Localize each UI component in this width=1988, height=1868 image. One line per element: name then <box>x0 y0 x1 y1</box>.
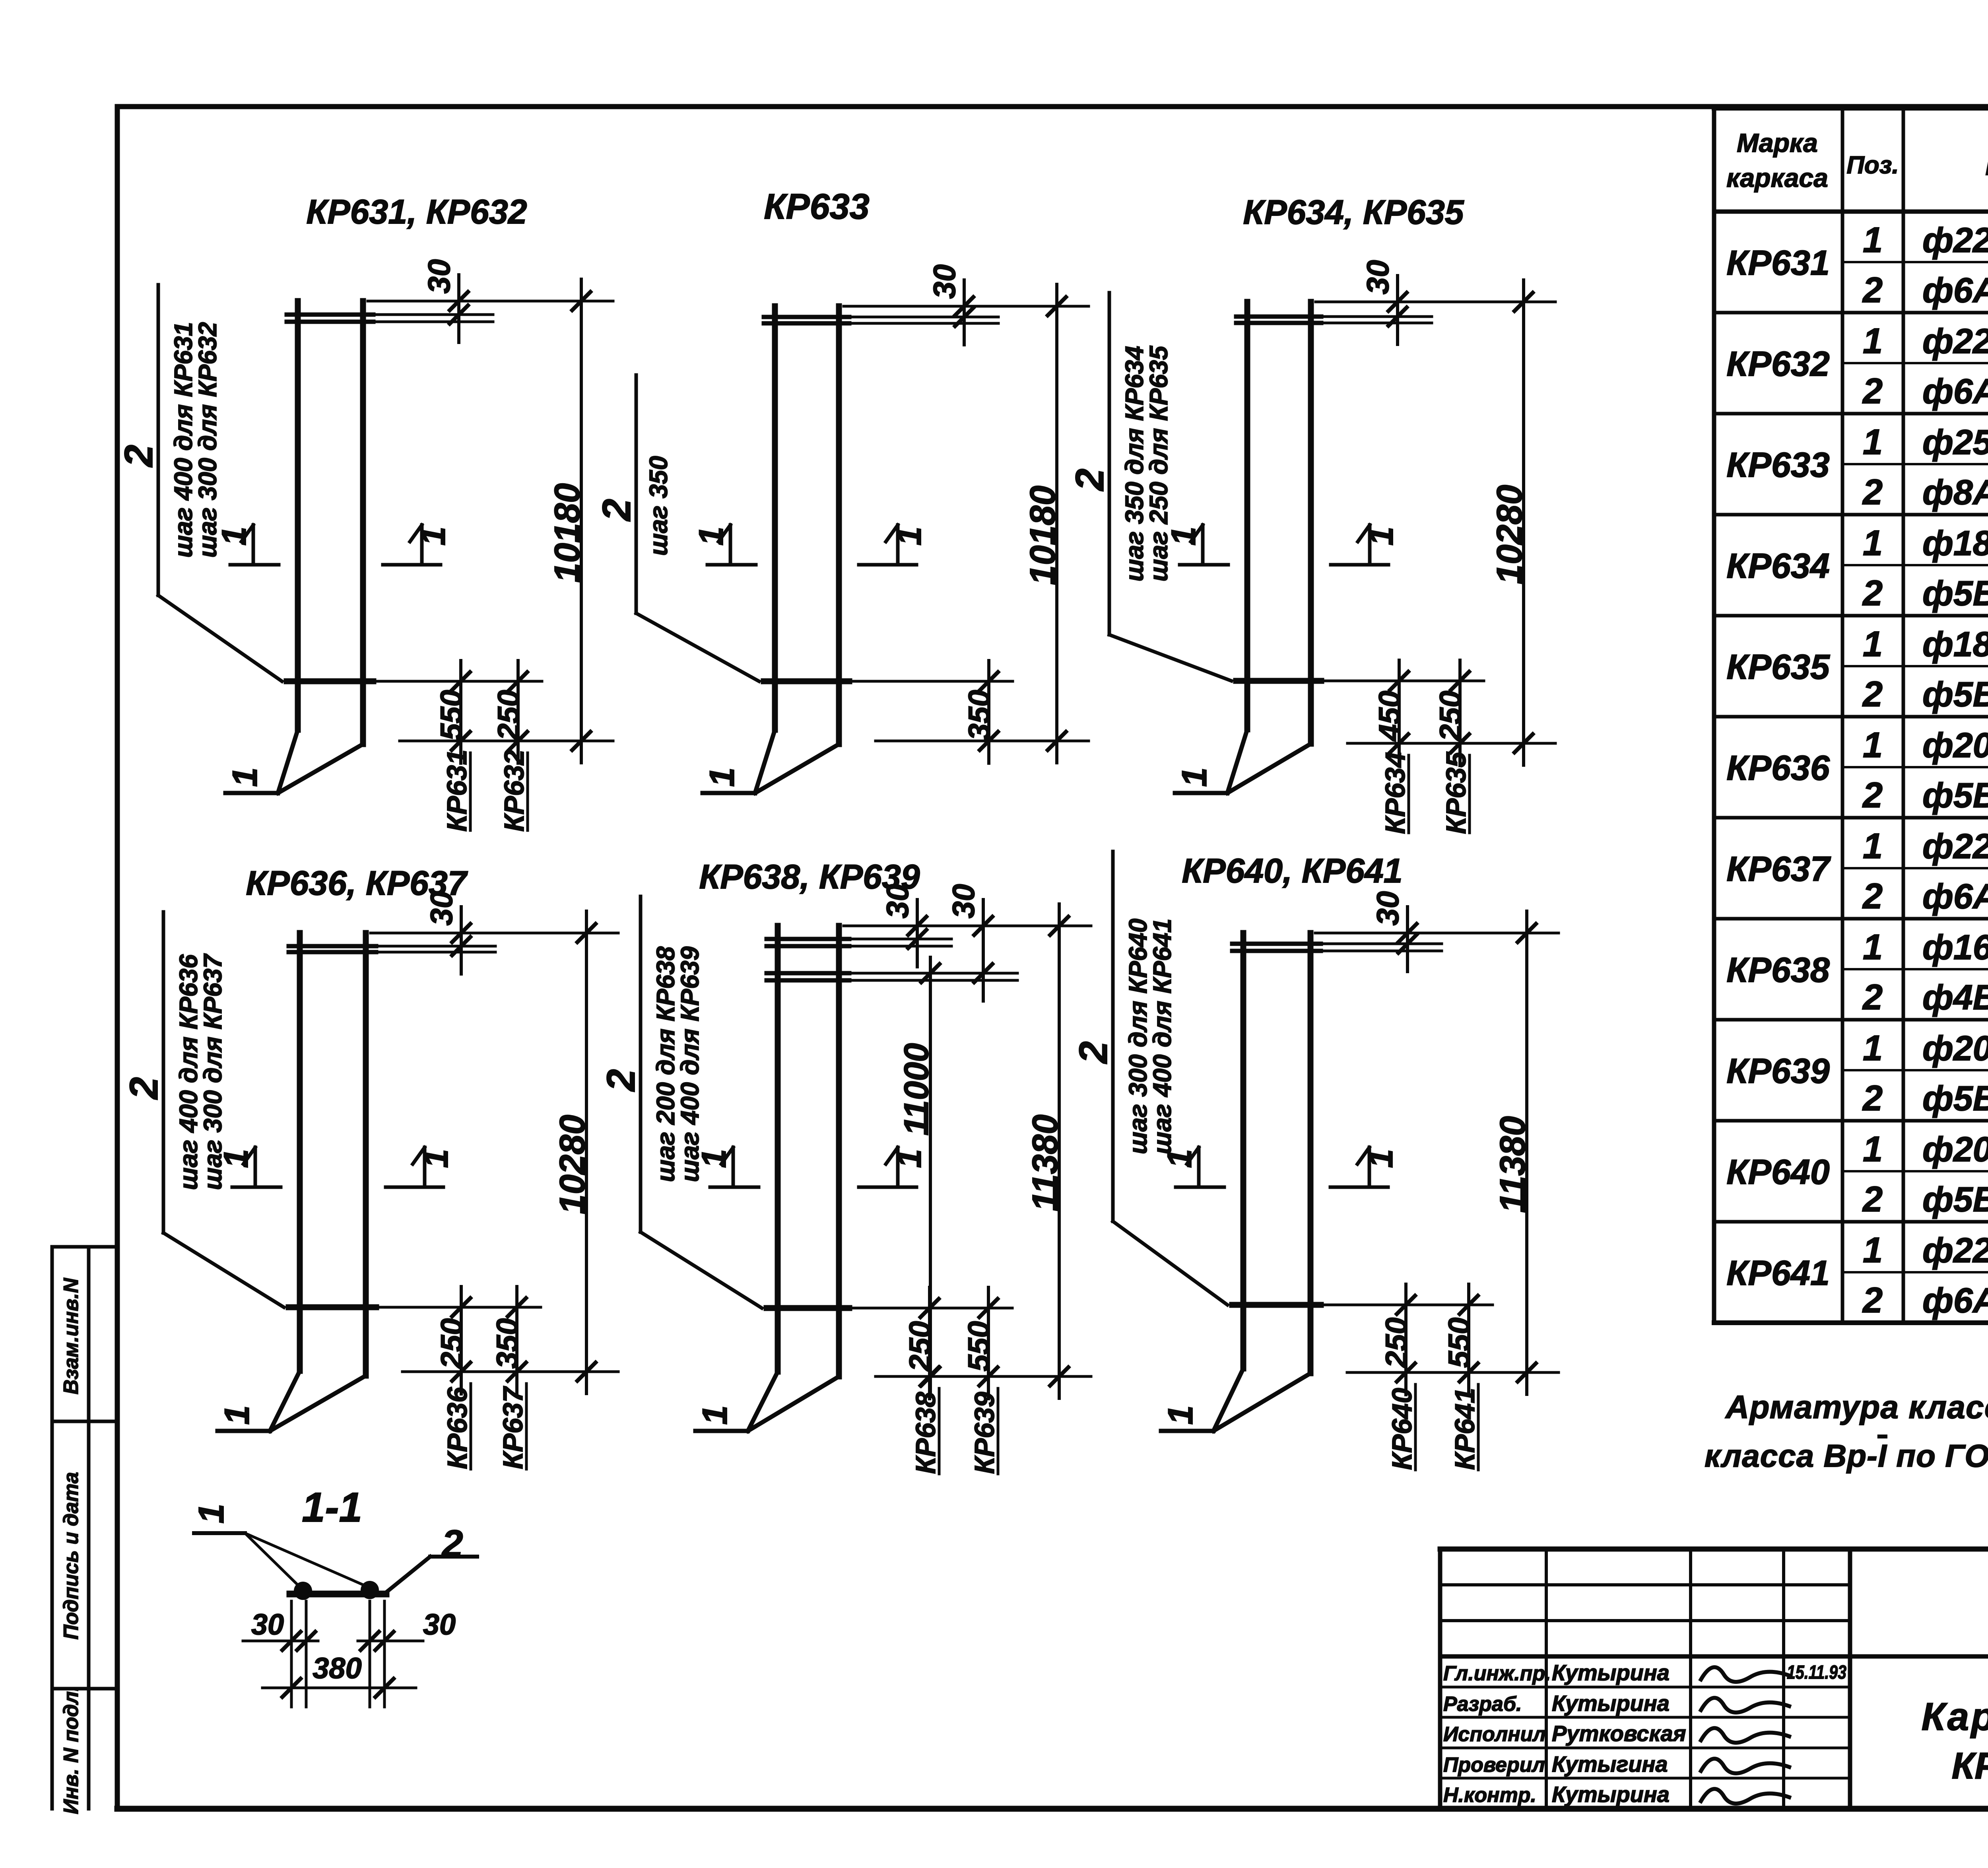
svg-text:ф20АШl=11380: ф20АШl=11380 <box>1922 1129 1988 1169</box>
svg-text:ф18АШl=10280: ф18АШl=10280 <box>1922 523 1988 563</box>
svg-text:ф6АIl=380: ф6АIl=380 <box>1922 371 1988 411</box>
svg-text:ф18АШl=10280: ф18АШl=10280 <box>1922 624 1988 664</box>
svg-text:КР631: КР631 <box>441 750 472 832</box>
svg-text:Каркас плоский: Каркас плоский <box>1921 1695 1988 1738</box>
svg-text:1: 1 <box>1175 768 1214 787</box>
svg-text:1: 1 <box>217 1149 255 1168</box>
svg-text:11380: 11380 <box>1025 1114 1065 1211</box>
svg-text:2: 2 <box>122 1077 166 1100</box>
svg-text:1: 1 <box>692 527 730 546</box>
svg-text:Наименование: Наименование <box>1985 148 1988 181</box>
svg-text:Кутырина: Кутырина <box>1552 1660 1670 1685</box>
svg-text:1: 1 <box>890 1149 928 1168</box>
svg-text:1: 1 <box>1863 927 1883 967</box>
svg-text:КР640: КР640 <box>1726 1152 1830 1192</box>
svg-text:ф20АШl=10280: ф20АШl=10280 <box>1922 725 1988 765</box>
svg-text:ф22АШl=10280: ф22АШl=10280 <box>1922 826 1988 866</box>
svg-text:2: 2 <box>1862 270 1883 310</box>
svg-text:30: 30 <box>946 884 981 919</box>
svg-text:КР639: КР639 <box>1726 1051 1830 1090</box>
svg-text:ф5ВрIl=380: ф5ВрIl=380 <box>1922 1180 1988 1219</box>
svg-text:КР635: КР635 <box>1441 752 1472 834</box>
svg-text:30: 30 <box>421 259 456 294</box>
svg-text:250: 250 <box>492 690 526 741</box>
svg-text:Исполнил: Исполнил <box>1443 1723 1546 1746</box>
svg-text:1: 1 <box>1362 1149 1400 1168</box>
svg-text:550: 550 <box>962 1321 996 1372</box>
svg-text:шаг 250 для КР635: шаг 250 для КР635 <box>1144 345 1173 581</box>
svg-text:1: 1 <box>1863 1028 1883 1068</box>
svg-text:ф22АШl=11380: ф22АШl=11380 <box>1922 1230 1988 1270</box>
svg-text:ф6АIl=380: ф6АIl=380 <box>1922 877 1988 916</box>
svg-text:380: 380 <box>313 1652 361 1685</box>
svg-text:КР636: КР636 <box>1726 748 1830 787</box>
svg-text:1: 1 <box>1863 1129 1883 1169</box>
svg-text:11380: 11380 <box>1493 1116 1533 1213</box>
svg-text:2: 2 <box>1862 573 1883 613</box>
svg-text:КР631: КР631 <box>1726 243 1830 282</box>
svg-text:30: 30 <box>1370 891 1405 926</box>
svg-text:КР634: КР634 <box>1380 752 1411 834</box>
svg-text:Арматура класса А-Ш и А-I по Г: Арматура класса А-Ш и А-I по ГОСТ 5781-8… <box>1725 1389 1988 1425</box>
svg-text:250: 250 <box>903 1321 937 1372</box>
svg-text:Н.контр.: Н.контр. <box>1443 1784 1536 1807</box>
svg-text:1: 1 <box>417 1149 455 1168</box>
svg-text:15.11.93: 15.11.93 <box>1787 1662 1846 1683</box>
svg-text:Кутырина: Кутырина <box>1552 1691 1670 1716</box>
svg-text:Разраб.: Разраб. <box>1443 1693 1522 1716</box>
svg-text:1: 1 <box>414 527 452 546</box>
svg-text:ф6АIl=380: ф6АIl=380 <box>1922 1281 1988 1320</box>
svg-text:ф8АIl=380: ф8АIl=380 <box>1922 472 1988 512</box>
svg-text:11000: 11000 <box>897 1043 936 1136</box>
svg-text:ф25АШl=10180: ф25АШl=10180 <box>1922 422 1988 462</box>
svg-text:КР639: КР639 <box>969 1392 1000 1474</box>
svg-text:Рутковская: Рутковская <box>1552 1721 1686 1746</box>
svg-text:1-1: 1-1 <box>302 1484 362 1531</box>
svg-text:Марка: Марка <box>1737 128 1818 157</box>
svg-text:шаг 350: шаг 350 <box>644 456 673 556</box>
svg-text:Кутырина: Кутырина <box>1552 1782 1670 1807</box>
svg-text:1: 1 <box>1863 321 1883 361</box>
svg-text:КР636: КР636 <box>442 1387 473 1470</box>
svg-text:ф4ВрIl=380: ф4ВрIl=380 <box>1922 978 1988 1017</box>
svg-text:Подпись и дата: Подпись и дата <box>60 1472 83 1640</box>
svg-text:ф5ВрIl=380: ф5ВрIl=380 <box>1922 776 1988 815</box>
svg-text:2: 2 <box>1862 776 1883 815</box>
svg-text:ф22АШl=10180: ф22АШl=10180 <box>1922 220 1988 260</box>
svg-text:1: 1 <box>702 768 742 787</box>
svg-text:30: 30 <box>880 884 915 919</box>
svg-text:2: 2 <box>1862 1281 1883 1320</box>
svg-text:КР633: КР633 <box>1726 445 1830 484</box>
svg-text:2: 2 <box>116 445 161 468</box>
svg-text:1: 1 <box>695 1149 733 1168</box>
svg-text:1: 1 <box>1161 1149 1199 1168</box>
svg-text:ф6АIl=380: ф6АIl=380 <box>1922 270 1988 310</box>
svg-text:2: 2 <box>1862 978 1883 1017</box>
svg-text:350: 350 <box>963 690 996 741</box>
svg-text:1: 1 <box>1161 1405 1200 1425</box>
svg-text:2: 2 <box>1862 371 1883 411</box>
svg-text:1: 1 <box>695 1405 734 1425</box>
svg-text:30: 30 <box>423 1608 456 1641</box>
svg-text:Взам.инв.N: Взам.инв.N <box>60 1277 83 1394</box>
svg-text:1: 1 <box>1863 422 1883 462</box>
svg-text:250: 250 <box>1434 691 1468 742</box>
svg-text:каркаса: каркаса <box>1726 163 1828 192</box>
svg-text:КР638: КР638 <box>910 1392 941 1474</box>
svg-text:Кутыгина: Кутыгина <box>1552 1751 1668 1777</box>
svg-text:30: 30 <box>927 264 962 299</box>
svg-text:ф5ВрIl=380: ф5ВрIl=380 <box>1922 573 1988 613</box>
svg-text:1: 1 <box>890 527 928 546</box>
svg-text:КР637: КР637 <box>497 1386 528 1470</box>
svg-text:1: 1 <box>215 527 253 546</box>
svg-text:2: 2 <box>1862 675 1883 714</box>
svg-text:1: 1 <box>1165 527 1203 546</box>
svg-text:1: 1 <box>1863 523 1883 563</box>
svg-text:КР641: КР641 <box>1449 1388 1480 1470</box>
svg-text:КР638: КР638 <box>1726 950 1830 989</box>
svg-text:КР632: КР632 <box>1726 344 1830 383</box>
svg-text:250: 250 <box>435 1318 469 1370</box>
svg-text:КР634: КР634 <box>1726 546 1830 585</box>
svg-text:2: 2 <box>1071 1041 1116 1064</box>
svg-text:2: 2 <box>1862 1180 1883 1219</box>
svg-text:450: 450 <box>1373 691 1407 742</box>
svg-text:1: 1 <box>1863 826 1883 866</box>
svg-text:550: 550 <box>435 690 468 741</box>
svg-text:30: 30 <box>1360 260 1395 295</box>
svg-text:1: 1 <box>1863 725 1883 765</box>
svg-text:2: 2 <box>1862 1079 1883 1118</box>
svg-text:КР641: КР641 <box>1726 1253 1830 1293</box>
svg-text:1: 1 <box>1863 624 1883 664</box>
svg-text:КР635: КР635 <box>1726 647 1830 686</box>
svg-text:КР633: КР633 <box>764 187 870 227</box>
svg-text:КР631, КР632: КР631, КР632 <box>306 193 527 231</box>
svg-text:КР631... КР641: КР631... КР641 <box>1951 1745 1988 1786</box>
svg-text:30: 30 <box>251 1608 284 1641</box>
svg-text:КР640, КР641: КР640, КР641 <box>1182 852 1402 890</box>
svg-text:1: 1 <box>1362 527 1400 546</box>
svg-text:ф5ВрIl=380: ф5ВрIl=380 <box>1922 1079 1988 1118</box>
svg-text:10280: 10280 <box>1490 485 1530 584</box>
svg-text:КР637: КР637 <box>1726 849 1831 888</box>
svg-text:10180: 10180 <box>1023 486 1063 585</box>
svg-text:2: 2 <box>1862 877 1883 916</box>
svg-text:2: 2 <box>441 1522 463 1565</box>
svg-text:350: 350 <box>491 1318 524 1369</box>
svg-text:шаг 400 для КР641: шаг 400 для КР641 <box>1148 919 1176 1155</box>
svg-text:1: 1 <box>192 1504 231 1524</box>
svg-text:шаг 300 для КР632: шаг 300 для КР632 <box>193 322 222 558</box>
svg-text:ф22АШl=10180: ф22АШl=10180 <box>1922 321 1988 361</box>
svg-text:Инв. N подл.: Инв. N подл. <box>60 1685 83 1814</box>
svg-text:КР632: КР632 <box>499 750 530 832</box>
svg-text:1: 1 <box>225 768 264 787</box>
svg-text:класса Вр-I по ГОСТ 6727-80: класса Вр-I по ГОСТ 6727-80 <box>1705 1438 1988 1473</box>
svg-text:КР634, КР635: КР634, КР635 <box>1243 193 1464 231</box>
svg-text:550: 550 <box>1442 1318 1476 1368</box>
svg-text:Поз.: Поз. <box>1846 152 1899 179</box>
svg-text:КР640: КР640 <box>1386 1388 1417 1470</box>
svg-text:ф20АШl=11380: ф20АШl=11380 <box>1922 1028 1988 1068</box>
svg-text:1: 1 <box>217 1405 256 1425</box>
svg-text:2: 2 <box>1862 472 1883 512</box>
svg-text:2: 2 <box>1068 468 1112 492</box>
svg-text:ф16АШl=11380: ф16АШl=11380 <box>1922 927 1988 967</box>
svg-text:2: 2 <box>594 499 639 522</box>
svg-text:10280: 10280 <box>553 1115 592 1214</box>
svg-text:30: 30 <box>424 891 459 926</box>
svg-text:1: 1 <box>1863 1230 1883 1270</box>
svg-text:1: 1 <box>1863 220 1883 260</box>
svg-text:10180: 10180 <box>547 483 587 583</box>
svg-text:2: 2 <box>599 1069 643 1092</box>
svg-text:Проверил: Проверил <box>1443 1753 1545 1777</box>
svg-text:Гл.инж.пр.: Гл.инж.пр. <box>1443 1662 1551 1685</box>
svg-text:ф5ВрIl=380: ф5ВрIl=380 <box>1922 675 1988 714</box>
svg-text:шаг 400 для КР639: шаг 400 для КР639 <box>676 946 704 1182</box>
svg-text:250: 250 <box>1380 1318 1413 1369</box>
